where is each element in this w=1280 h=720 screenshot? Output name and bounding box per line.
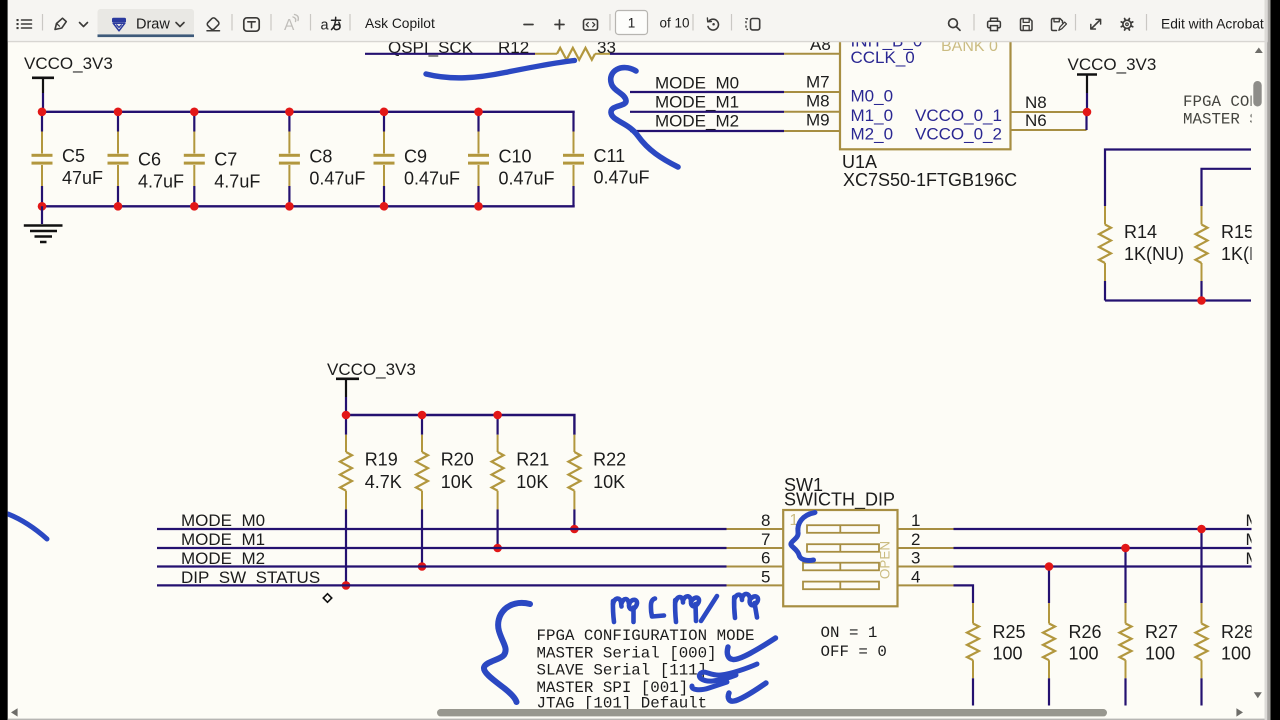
- ink check mark Default: [728, 683, 766, 701]
- svg-text:R15: R15: [1221, 222, 1254, 242]
- wire MODE_M1: [630, 111, 784, 113]
- svg-text:VCCO_3V3: VCCO_3V3: [24, 54, 113, 73]
- svg-text:MODE_M1: MODE_M1: [181, 530, 265, 549]
- toolbar icon: print: [991, 18, 998, 21]
- right grey window edge: [1265, 0, 1268, 720]
- svg-text:OFF = 0: OFF = 0: [821, 643, 887, 661]
- resistor R22 10K: [568, 435, 626, 529]
- svg-text:10K: 10K: [593, 472, 625, 492]
- resistor R12 value 33: [498, 38, 616, 60]
- pin lead right side SW1: [898, 566, 954, 568]
- ink check mark [000]: [727, 638, 775, 660]
- wire VCC rail to R14: [1105, 150, 1251, 207]
- svg-text:R19: R19: [365, 450, 398, 470]
- junction dots on pullup rail: [342, 411, 351, 420]
- svg-text:VCCO_0_2: VCCO_0_2: [915, 125, 1002, 144]
- separator: [973, 14, 975, 31]
- wire MODE_M2 to SW1: [157, 565, 727, 567]
- svg-text:MASTER S: MASTER S: [1183, 111, 1259, 129]
- pin lead right side SW1: [898, 584, 954, 586]
- wire QSPI_SCK to R12: [365, 53, 535, 55]
- svg-text:N8: N8: [1025, 93, 1047, 112]
- pin N8 lead: [1011, 111, 1084, 113]
- wire MODE_M0: [630, 91, 784, 93]
- wire MODE_M1 to SW1: [157, 547, 727, 549]
- ink handwriting M1: [673, 600, 678, 622]
- pin M7 lead: [784, 91, 840, 93]
- svg-text:7: 7: [761, 530, 770, 549]
- svg-text:M9: M9: [806, 111, 830, 130]
- wire rail to R15: [1202, 169, 1252, 206]
- svg-text:N6: N6: [1025, 111, 1047, 130]
- pin lead left side SW1: [727, 528, 784, 530]
- svg-text:47uF: 47uF: [62, 168, 103, 188]
- resistor R25 100: [967, 603, 1026, 706]
- toolbar icon: settings gear: [1123, 20, 1131, 28]
- svg-text:a: a: [321, 18, 330, 34]
- Draw button: [98, 9, 195, 34]
- svg-text:XC7S50-1FTGB196C: XC7S50-1FTGB196C: [843, 170, 1017, 190]
- svg-text:1K(NU): 1K(NU): [1124, 244, 1184, 264]
- svg-text:C8: C8: [309, 146, 332, 166]
- junction dots resistors to nets: [342, 581, 351, 590]
- svg-text:MODE_M0: MODE_M0: [655, 74, 739, 93]
- svg-text:U1A: U1A: [842, 152, 877, 172]
- ink arc bottom left: [8, 514, 47, 539]
- pin lead left side SW1: [727, 566, 784, 568]
- separator: [42, 14, 44, 31]
- separator: [1075, 14, 1077, 31]
- power symbol VCCO_3V3 (top right): [1068, 55, 1157, 112]
- junction node N8/VCCO: [1083, 108, 1092, 117]
- toolbar background: [0, 0, 1280, 42]
- svg-text:C6: C6: [138, 150, 161, 170]
- svg-text:6: 6: [761, 549, 770, 568]
- toolbar icon: eraser: [206, 17, 220, 31]
- op-amp U1A FPGA XC7S50 chip body: [840, 26, 1011, 149]
- wire top rail of decoupling bank: [42, 111, 575, 113]
- separator: [1146, 14, 1148, 31]
- svg-text:0.47uF: 0.47uF: [594, 168, 650, 188]
- note FPGA CONFIGURATION title: [1183, 93, 1268, 129]
- svg-text:C10: C10: [499, 146, 532, 166]
- ink small curly brace on SW1: [791, 513, 815, 561]
- switch SW1 body: [783, 510, 897, 606]
- svg-text:4.7uF: 4.7uF: [214, 172, 260, 192]
- svg-text:SWICTH_DIP: SWICTH_DIP: [784, 490, 895, 511]
- bottom window edge: [8, 719, 1265, 720]
- svg-text:2: 2: [911, 530, 920, 549]
- svg-text:1: 1: [911, 511, 920, 530]
- svg-text:VCCO_0_1: VCCO_0_1: [915, 106, 1002, 125]
- wire MODE_M2: [630, 130, 784, 132]
- toolbar icon: add text: [244, 18, 259, 31]
- resistor R15 1K(NU): [1196, 206, 1263, 301]
- capacitor C7: [184, 112, 261, 207]
- resistor R28 100: [1196, 525, 1255, 706]
- ink handwriting L: [651, 599, 664, 617]
- svg-text:R27: R27: [1145, 622, 1178, 642]
- svg-text:MASTER Serial [000]: MASTER Serial [000]: [537, 644, 717, 662]
- separator: [609, 14, 611, 31]
- wire DIP_SW_STATUS to SW1: [157, 584, 727, 586]
- svg-text:4.7K: 4.7K: [365, 472, 402, 492]
- vertical scrollbar up arrow: [1255, 48, 1263, 54]
- svg-text:5: 5: [761, 567, 770, 586]
- toolbar icon: table of contents: [17, 19, 19, 21]
- page view icon: [751, 19, 760, 30]
- svg-text:R20: R20: [441, 450, 474, 470]
- svg-text:10K: 10K: [516, 472, 548, 492]
- switch element row 3: [803, 563, 879, 571]
- ink curly brace at MODE nets: [611, 68, 678, 167]
- separator: [692, 14, 694, 31]
- svg-text:M2_0: M2_0: [851, 125, 894, 144]
- right window black strip: [1271, 0, 1280, 720]
- vertical scrollbar down arrow: [1254, 692, 1262, 698]
- ground symbol: [24, 206, 63, 242]
- separator: [270, 14, 272, 31]
- svg-text:C9: C9: [404, 146, 427, 166]
- svg-text:100: 100: [1145, 644, 1175, 664]
- svg-text:CCLK_0: CCLK_0: [851, 48, 915, 67]
- draw-tool cursor diamond: [323, 594, 331, 602]
- switch element row 4: [803, 582, 879, 590]
- capacitor C11: [563, 112, 650, 207]
- pin A8 lead: [784, 53, 840, 55]
- wire MODE_M1 to right edge: [954, 547, 1252, 549]
- svg-text:R25: R25: [993, 622, 1026, 642]
- capacitor C5: [32, 112, 104, 207]
- separator: [731, 14, 733, 31]
- wire MODE_M0 to SW1: [157, 528, 727, 530]
- resistor R21 10K: [492, 415, 550, 548]
- svg-text:R22: R22: [593, 450, 626, 470]
- ink handwriting M9 (2): [732, 597, 737, 618]
- svg-text:MODE_M2: MODE_M2: [655, 112, 739, 131]
- svg-text:FPGA CONFIGURATION MODE: FPGA CONFIGURATION MODE: [537, 627, 755, 645]
- svg-text:1: 1: [628, 15, 636, 30]
- page number box: [616, 11, 648, 35]
- svg-text:Draw: Draw: [136, 17, 170, 33]
- svg-text:C11: C11: [594, 146, 626, 166]
- wire pullup rail: [346, 415, 574, 435]
- pin M9 lead: [784, 130, 840, 132]
- junction dots on rails: [38, 108, 483, 211]
- svg-text:8: 8: [761, 511, 770, 530]
- pin N6 lead: [1011, 129, 1087, 131]
- svg-text:ON = 1: ON = 1: [821, 624, 878, 642]
- ink big curly brace at config table: [484, 603, 530, 702]
- separator: [231, 14, 233, 31]
- toolbar icon: highlighter: [55, 18, 66, 29]
- power symbol VCCO_3V3 (lower): [327, 360, 416, 415]
- horizontal scrollbar thumb: [437, 709, 1107, 716]
- toolbar icon: save as: [1052, 19, 1063, 31]
- note FPGA CONFIGURATION MODE table: [537, 627, 755, 713]
- svg-text:4.7uF: 4.7uF: [138, 172, 184, 192]
- capacitor C9: [374, 112, 461, 207]
- horizontal scrollbar left arrow: [11, 708, 18, 716]
- resistor R27 100: [1120, 544, 1179, 706]
- svg-text:DIP_SW_STATUS: DIP_SW_STATUS: [181, 568, 320, 587]
- svg-text:MODE_M2: MODE_M2: [181, 549, 265, 568]
- resistor R14 1K(NU): [1099, 206, 1184, 301]
- pin M8 lead: [784, 111, 840, 113]
- wire bottom rail of decoupling bank: [42, 205, 575, 207]
- svg-text:M7: M7: [806, 73, 830, 92]
- resistor R20 10K: [416, 415, 474, 567]
- svg-text:A: A: [284, 17, 295, 34]
- resistor R19 4.7K: [340, 415, 402, 585]
- pin lead right side SW1: [898, 528, 954, 530]
- zoom in: [555, 24, 564, 26]
- svg-text:0.47uF: 0.47uF: [499, 168, 555, 188]
- svg-text:100: 100: [1069, 644, 1099, 664]
- pin lead left side SW1: [727, 584, 784, 586]
- separator: [310, 14, 312, 31]
- toolbar icon: expand: [1091, 20, 1100, 29]
- svg-text:10K: 10K: [441, 472, 473, 492]
- svg-text:100: 100: [993, 644, 1023, 664]
- power symbol VCCO_3V3 (top left): [24, 54, 113, 112]
- svg-text:M0_0: M0_0: [851, 87, 894, 106]
- wire SW1 pin4 to R25: [954, 585, 974, 603]
- svg-text:MODE_M0: MODE_M0: [181, 511, 265, 530]
- svg-text:Ask Copilot: Ask Copilot: [365, 16, 435, 31]
- ink scribble [111]/[001]: [699, 664, 757, 681]
- capacitor C8: [279, 112, 366, 207]
- junction dot R15 bottom: [1197, 296, 1206, 305]
- chevron: [80, 23, 88, 27]
- svg-text:0.47uF: 0.47uF: [309, 168, 365, 188]
- svg-text:of 10: of 10: [660, 15, 690, 30]
- vertical scrollbar thumb: [1253, 81, 1261, 107]
- switch element row 2: [807, 544, 879, 552]
- svg-text:R28: R28: [1221, 622, 1254, 642]
- ink handwriting M9: [613, 601, 614, 622]
- svg-text:SLAVE Serial [111]: SLAVE Serial [111]: [537, 662, 708, 680]
- capacitor C6: [108, 112, 185, 207]
- svg-text:0.47uF: 0.47uF: [404, 168, 460, 188]
- note ON/OFF legend: [821, 624, 887, 661]
- svg-text:VCCO_3V3: VCCO_3V3: [327, 360, 416, 379]
- svg-text:M1_0: M1_0: [851, 106, 894, 125]
- svg-text:R14: R14: [1124, 222, 1157, 242]
- wire MODE_M2 to right edge: [954, 565, 1252, 567]
- svg-text:C5: C5: [62, 146, 85, 166]
- Draw pen icon: [113, 18, 126, 22]
- resistor R26 100: [1043, 562, 1102, 705]
- pin lead right side SW1: [898, 547, 954, 549]
- toolbar icon: search: [949, 19, 958, 28]
- fit to width icon: [584, 19, 598, 30]
- left window black strip: [0, 0, 8, 720]
- svg-text:R26: R26: [1069, 622, 1102, 642]
- toolbar icon: save: [1021, 19, 1033, 31]
- capacitor C10: [468, 112, 555, 207]
- zoom out: [524, 24, 533, 26]
- svg-text:3: 3: [911, 549, 920, 568]
- svg-text:M8: M8: [806, 92, 830, 111]
- wire MODE_M0 to right edge: [954, 528, 1252, 530]
- svg-text:4: 4: [911, 567, 920, 586]
- svg-text:Edit with Acrobat: Edit with Acrobat: [1161, 16, 1264, 31]
- svg-text:C7: C7: [214, 150, 237, 170]
- wire N6 up to N8 junction: [1085, 112, 1087, 130]
- separator: [349, 14, 351, 31]
- wire R12 to FPGA pin A8: [610, 53, 784, 55]
- horizontal scrollbar right arrow: [1236, 708, 1243, 716]
- svg-text:MODE_M1: MODE_M1: [655, 93, 739, 112]
- wire bottom of R14/R15: [1105, 299, 1251, 301]
- ink swoosh under QSPI_SCK: [426, 61, 575, 78]
- rotate icon: [708, 19, 718, 30]
- pin lead left side SW1: [727, 547, 784, 549]
- switch element row 1: [807, 525, 879, 533]
- svg-text:100: 100: [1221, 644, 1251, 664]
- svg-text:VCCO_3V3: VCCO_3V3: [1068, 55, 1157, 74]
- svg-text:R21: R21: [516, 450, 549, 470]
